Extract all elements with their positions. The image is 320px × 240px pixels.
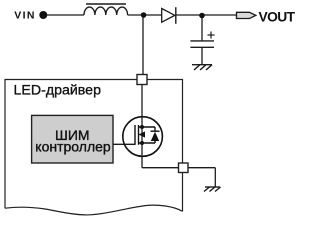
svg-text:LED-драйвер: LED-драйвер	[14, 83, 102, 99]
svg-text:контроллер: контроллер	[35, 139, 111, 155]
svg-text:VIN: VIN	[14, 9, 36, 21]
svg-text:VOUT: VOUT	[259, 10, 296, 25]
